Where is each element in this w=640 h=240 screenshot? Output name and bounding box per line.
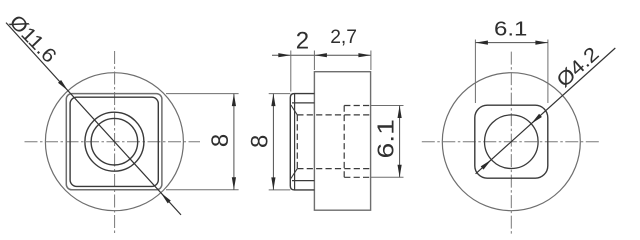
svg-text:2,7: 2,7 [330, 27, 357, 48]
svg-text:2: 2 [296, 27, 309, 54]
svg-text:8: 8 [246, 135, 273, 148]
svg-text:8: 8 [207, 134, 234, 147]
svg-text:6.1: 6.1 [374, 119, 399, 158]
svg-text:6.1: 6.1 [494, 18, 527, 41]
